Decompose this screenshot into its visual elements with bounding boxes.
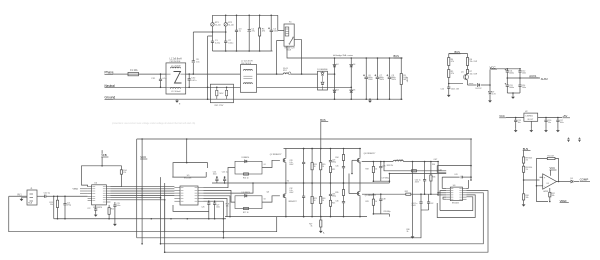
resistor R12 vref bbox=[549, 188, 555, 202]
snubber hb2 lower R29 bbox=[365, 194, 376, 214]
capacitor C9 bulk bbox=[386, 57, 396, 100]
svg-text:100u: 100u bbox=[273, 31, 277, 33]
resistor R6 bbox=[466, 54, 477, 66]
zener diode D7 bbox=[489, 85, 497, 99]
svg-text:R29: R29 bbox=[365, 201, 368, 203]
ground symbol reg3 bbox=[544, 129, 548, 133]
wire out A bbox=[412, 161, 439, 163]
diode D3 bbox=[350, 57, 356, 100]
resistor R13 shunt bbox=[50, 195, 59, 219]
capacitor C22 under U4 bbox=[87, 205, 97, 213]
wire divider tap bbox=[523, 172, 525, 194]
net label Phase bbox=[105, 71, 129, 75]
label u6 area bbox=[432, 164, 442, 171]
connector J1 bbox=[22, 188, 38, 205]
snubber R24 lower bbox=[320, 183, 326, 217]
capacitor C40 out bbox=[415, 162, 426, 196]
svg-text:D8: D8 bbox=[570, 178, 572, 180]
svg-text:C42: C42 bbox=[430, 203, 433, 205]
capacitor C19 stub bbox=[578, 138, 580, 143]
gate network D9 R16 bbox=[204, 156, 280, 188]
wire phase to choke bbox=[139, 73, 167, 75]
wire u6 bus down b bbox=[165, 191, 488, 253]
capacitor C14 bbox=[518, 78, 526, 93]
svg-text:R11 1M: R11 1M bbox=[548, 156, 555, 158]
wire aux mid rail bbox=[507, 77, 541, 79]
inductor L3 bbox=[393, 159, 412, 161]
ground symbol input bbox=[20, 198, 24, 202]
svg-text:D1 GBU806: D1 GBU806 bbox=[317, 69, 327, 71]
svg-text:Phase: Phase bbox=[105, 71, 114, 75]
ground symbol under U4 bbox=[94, 213, 98, 217]
snubber C32 lower bbox=[289, 183, 305, 217]
wire q4 source bbox=[359, 163, 361, 190]
capacitor C21 shunt bbox=[63, 195, 71, 219]
svg-text:10k: 10k bbox=[552, 195, 555, 197]
wire neutral riser bbox=[207, 36, 213, 100]
ground symbol reg4 bbox=[556, 129, 560, 133]
capacitor C27 under U5 bbox=[213, 200, 220, 219]
resistor R2 bleeder bbox=[400, 57, 407, 100]
svg-text:R17 10: R17 10 bbox=[243, 212, 249, 214]
faint note row bbox=[112, 122, 196, 125]
relay K1 bbox=[284, 21, 295, 51]
capacitor C3 bbox=[235, 15, 242, 52]
svg-text:3k: 3k bbox=[407, 231, 409, 233]
gate network D10 R17 bbox=[204, 190, 280, 213]
ground symbol comp bbox=[522, 203, 526, 207]
transistor Q5 nfet bbox=[357, 191, 375, 217]
label +BUS vertical bbox=[407, 76, 409, 82]
capacitor C43 u6 bbox=[442, 174, 472, 188]
wire u4 bus d bbox=[110, 192, 174, 194]
svg-text:RV1 275V: RV1 275V bbox=[215, 105, 224, 107]
wire snub join hb2 bbox=[373, 174, 391, 184]
svg-text:BUS: BUS bbox=[320, 118, 326, 122]
svg-text:1%: 1% bbox=[526, 169, 529, 171]
svg-text:F1 10A: F1 10A bbox=[130, 69, 138, 72]
wire opamp vcc bbox=[550, 166, 557, 176]
svg-text:C22: C22 bbox=[87, 208, 90, 210]
svg-text:C20 1u: C20 1u bbox=[44, 192, 51, 194]
svg-text:R35: R35 bbox=[335, 192, 338, 194]
snubber R20 bbox=[320, 149, 326, 184]
capacitor C10 bbox=[441, 87, 460, 94]
svg-text:47u: 47u bbox=[252, 31, 255, 33]
svg-text:47k: 47k bbox=[451, 61, 454, 63]
svg-text:470p: 470p bbox=[67, 204, 71, 206]
net label VCC aux bbox=[489, 65, 497, 85]
wire hb bottom rail bbox=[225, 216, 367, 218]
svg-text:full-bridge 35A - mains: full-bridge 35A - mains bbox=[333, 54, 353, 57]
diode D2 bbox=[333, 57, 339, 100]
svg-text:Q4 IRFB4227: Q4 IRFB4227 bbox=[364, 153, 376, 155]
svg-text:CM CHOKE: CM CHOKE bbox=[241, 63, 252, 65]
svg-text:10: 10 bbox=[375, 201, 377, 203]
gate driver U5 bbox=[174, 175, 203, 205]
svg-text:1u: 1u bbox=[239, 31, 241, 33]
wire driver pin down bbox=[204, 201, 225, 238]
svg-text:R31: R31 bbox=[432, 176, 435, 178]
net label IN bbox=[9, 194, 27, 196]
wire driver aux pins bbox=[204, 182, 254, 217]
svg-text:RT4: RT4 bbox=[283, 70, 287, 72]
net label VCC reg bbox=[499, 114, 524, 118]
label out net bbox=[434, 159, 439, 161]
capacitor C6 bulk bbox=[363, 57, 373, 100]
resistor R10 bbox=[523, 194, 529, 203]
svg-text:G1: G1 bbox=[264, 164, 266, 166]
svg-text:LM311: LM311 bbox=[543, 191, 548, 193]
capacitor C12 bbox=[518, 68, 526, 78]
svg-text:C26: C26 bbox=[201, 206, 204, 208]
wire hb2 lower node bbox=[360, 193, 406, 196]
svg-text:C46: C46 bbox=[335, 201, 338, 203]
svg-text:10k: 10k bbox=[50, 204, 53, 206]
svg-text:200V: 200V bbox=[380, 79, 385, 81]
capacitor C25 boot bbox=[222, 171, 228, 183]
wire bridge top rail BUS bbox=[318, 54, 403, 58]
svg-text:CM CHOKE: CM CHOKE bbox=[170, 61, 182, 63]
common-mode choke L1 bbox=[166, 58, 186, 94]
svg-text:COMP: COMP bbox=[580, 178, 589, 182]
capacitor CX1 bbox=[151, 73, 166, 88]
capacitor C13 bbox=[505, 78, 515, 93]
wire u6 right loop a bbox=[440, 197, 473, 211]
capacitor C18 stub bbox=[567, 138, 569, 143]
net label Ground bbox=[105, 96, 403, 100]
net label BUS comp bbox=[523, 147, 531, 151]
capacitor C26 under U5 bbox=[201, 200, 210, 219]
resistor R8 bbox=[523, 150, 533, 163]
svg-text:D5: D5 bbox=[353, 90, 355, 92]
svg-text:15k / 1W: 15k / 1W bbox=[470, 74, 478, 76]
svg-text:a: a bbox=[272, 31, 273, 33]
wire capbank bottom rail bbox=[212, 50, 272, 52]
svg-text:100n: 100n bbox=[522, 73, 526, 75]
ground symbol bridge bbox=[368, 98, 372, 102]
wire phase after choke bbox=[186, 73, 241, 75]
diode module D1 bbox=[317, 69, 327, 90]
capacitor C17 bbox=[556, 117, 564, 129]
svg-text:5D-11: 5D-11 bbox=[283, 68, 288, 70]
svg-text:CL-60: CL-60 bbox=[215, 24, 221, 26]
snubber column mid x343 lower bbox=[335, 183, 345, 217]
wire hb top rail bbox=[284, 148, 361, 150]
net label VFB bbox=[101, 150, 108, 166]
svg-text:R16 10: R16 10 bbox=[243, 177, 249, 179]
wire u6 right loop b bbox=[437, 195, 475, 218]
wire input node bbox=[53, 195, 88, 197]
svg-text:C45: C45 bbox=[335, 166, 338, 168]
svg-text:10u: 10u bbox=[518, 122, 521, 124]
wire out join bbox=[437, 162, 439, 195]
svg-text:0.22u: 0.22u bbox=[215, 42, 220, 44]
wire vcc rail right bbox=[490, 69, 520, 70]
wire u4 bus e bbox=[110, 195, 174, 197]
ground symbol earth bbox=[175, 99, 181, 105]
net label +5V bbox=[562, 114, 570, 118]
wire capbank top rail bbox=[212, 14, 277, 16]
zener diode D6 bbox=[469, 83, 490, 90]
regulator U2 7805 bbox=[524, 111, 562, 121]
svg-text:L1.2 6.8mH: L1.2 6.8mH bbox=[171, 91, 181, 93]
net label BUS aux bbox=[449, 50, 461, 54]
svg-text:100n: 100n bbox=[216, 206, 220, 208]
wire to relay coil bbox=[272, 15, 284, 33]
svg-text:IR2110S: IR2110S bbox=[452, 203, 460, 205]
svg-text:3W: 3W bbox=[403, 79, 406, 81]
wire bottom bus 238 bbox=[137, 210, 421, 238]
wire vcc mid rail bbox=[137, 138, 471, 149]
svg-text:D4: D4 bbox=[336, 90, 338, 92]
driver U6 bbox=[446, 185, 466, 205]
svg-text:R32: R32 bbox=[405, 191, 408, 193]
ground symbol bminus bbox=[319, 230, 325, 235]
svg-text:10: 10 bbox=[314, 200, 316, 202]
net label AUX2 bbox=[541, 77, 549, 81]
wire relay contact right bbox=[294, 40, 302, 75]
svg-text:10k: 10k bbox=[226, 206, 229, 208]
svg-text:100n 1kV: 100n 1kV bbox=[451, 89, 460, 91]
ground symbol reg2 bbox=[529, 129, 533, 133]
svg-text:VFB: VFB bbox=[101, 153, 107, 157]
wire vfb loop bbox=[82, 165, 103, 187]
capacitor C16 bbox=[544, 117, 551, 129]
svg-text:C25 1u: C25 1u bbox=[222, 171, 228, 173]
svg-text:10: 10 bbox=[375, 168, 377, 170]
ground symbol aux2 bbox=[488, 99, 492, 103]
wire tap to opamp bbox=[524, 179, 540, 181]
svg-text:C43: C43 bbox=[454, 174, 457, 176]
capacitor C5 bbox=[268, 15, 278, 52]
thermistor RT1 bbox=[211, 15, 222, 33]
capacitor CX2 bbox=[188, 73, 197, 88]
net label Neutral bbox=[105, 84, 167, 88]
svg-text:U3: U3 bbox=[547, 183, 549, 185]
wire driver left drops bbox=[160, 177, 166, 253]
net label VCC mid bbox=[140, 155, 147, 159]
svg-text:0.22u: 0.22u bbox=[228, 42, 233, 44]
svg-text:200V: 200V bbox=[392, 79, 397, 81]
snubber C33 lower bbox=[329, 183, 336, 217]
wire u4 bus c bbox=[110, 190, 174, 192]
svg-text:27k: 27k bbox=[123, 172, 126, 174]
transistor Q2 nfet bbox=[270, 149, 287, 184]
wire input feedback left bbox=[9, 196, 277, 231]
wire u4 bus f bbox=[110, 197, 161, 199]
label hb2 T bbox=[0, 0, 1, 1]
svg-text:LM7805: LM7805 bbox=[526, 115, 534, 117]
svg-text:C44: C44 bbox=[439, 169, 442, 171]
svg-text:zener: zener bbox=[469, 83, 474, 85]
wire driver top loop bbox=[172, 139, 207, 177]
svg-text:Q2 IRFB4227: Q2 IRFB4227 bbox=[270, 154, 282, 156]
wire relay contact left bbox=[276, 41, 284, 75]
svg-text:1%: 1% bbox=[526, 160, 529, 162]
ground symbol reg1 bbox=[514, 129, 518, 133]
capacitor C4 bbox=[248, 15, 255, 52]
svg-text:R21: R21 bbox=[332, 169, 335, 171]
wire u6 bus down a bbox=[161, 193, 484, 244]
svg-text:CL-60: CL-60 bbox=[228, 24, 234, 26]
wire emitter to vcc bbox=[468, 81, 477, 86]
svg-text:R33 22k: R33 22k bbox=[387, 165, 393, 167]
label hb1 T bbox=[287, 180, 290, 182]
snubber hb2 R28 bbox=[365, 162, 376, 182]
wire u6 left pins bbox=[437, 188, 446, 210]
svg-text:AUX1: AUX1 bbox=[529, 74, 537, 78]
svg-text:VCC: VCC bbox=[499, 114, 505, 118]
capacitor C11 bbox=[505, 68, 515, 78]
common-mode choke L2 bbox=[240, 61, 256, 93]
ground symbol c23 bbox=[113, 223, 117, 227]
wire vcc bottom join bbox=[141, 243, 143, 245]
svg-text:protections: over-current ove: protections: over-current over-voltage u… bbox=[112, 122, 196, 125]
svg-text:D2: D2 bbox=[336, 64, 338, 66]
wire phase into bridge bbox=[328, 73, 335, 75]
svg-text:Q5 IRFB4227: Q5 IRFB4227 bbox=[365, 195, 376, 197]
wire bottom segment 227 bbox=[164, 200, 166, 232]
wire aux top rail bbox=[449, 53, 468, 55]
wire rail left drop bbox=[136, 139, 138, 238]
resistor R9 bbox=[523, 163, 533, 172]
capacitor C15 bbox=[514, 117, 521, 129]
net label AUX1 bbox=[529, 74, 538, 78]
resistor R5 bbox=[448, 66, 454, 78]
capacitor C23 under U4 bbox=[113, 202, 120, 223]
gate wires hb2 bbox=[349, 160, 446, 193]
label under U5 bbox=[226, 203, 229, 207]
ground symbol aux3 bbox=[511, 95, 515, 99]
label full-bridge bbox=[333, 54, 353, 57]
svg-text:10k: 10k bbox=[526, 197, 529, 199]
svg-text:BUS: BUS bbox=[394, 54, 400, 58]
svg-text:+BUS: +BUS bbox=[407, 76, 409, 82]
svg-text:IRFB4227: IRFB4227 bbox=[289, 201, 297, 203]
wire outA drop bbox=[407, 162, 413, 234]
wire input shunt rail bbox=[54, 196, 226, 219]
svg-text:100n: 100n bbox=[213, 174, 217, 176]
varistor block RV1 bbox=[210, 84, 233, 107]
resistor R11 feedback bbox=[536, 156, 560, 187]
wire u4 bus b bbox=[110, 188, 174, 190]
svg-text:D10 BAT54: D10 BAT54 bbox=[242, 191, 251, 194]
capacitor C7 bulk bbox=[374, 57, 384, 100]
svg-text:VREF: VREF bbox=[560, 199, 568, 203]
resistor R31 out bbox=[430, 161, 436, 195]
svg-text:VCC: VCC bbox=[550, 166, 556, 170]
capacitor C20 series bbox=[37, 192, 54, 197]
svg-text:47k: 47k bbox=[451, 73, 454, 75]
snubber hb2 lower C38 bbox=[379, 194, 385, 214]
svg-text:Q1: Q1 bbox=[461, 72, 464, 74]
wire reg gnd pin bbox=[530, 121, 532, 128]
capacitor C24 boot bbox=[213, 171, 219, 183]
resistor R27 bminus bbox=[309, 149, 322, 230]
svg-text:10: 10 bbox=[314, 166, 316, 168]
transistor Q4 nfet bbox=[357, 148, 375, 164]
svg-text:10n: 10n bbox=[196, 61, 199, 63]
svg-text:100n: 100n bbox=[560, 122, 564, 124]
svg-text:C36: C36 bbox=[382, 166, 385, 168]
net label VREF bbox=[548, 199, 569, 203]
svg-text:R15: R15 bbox=[111, 209, 114, 211]
svg-text:0.47u: 0.47u bbox=[191, 80, 196, 82]
transistor Q1 bbox=[449, 72, 469, 84]
svg-text:100n: 100n bbox=[117, 205, 121, 207]
wire u4 bus a bbox=[110, 186, 174, 188]
svg-text:C10: C10 bbox=[441, 89, 445, 91]
fuse F1 bbox=[128, 69, 139, 76]
resistor R4 bbox=[448, 54, 454, 66]
wire stub u6 top bbox=[437, 173, 446, 211]
capacitor C1 bbox=[211, 32, 220, 51]
svg-text:D6 12V: D6 12V bbox=[476, 88, 483, 90]
wire relay coil return bbox=[287, 46, 318, 58]
thermistor RT2 bbox=[212, 15, 234, 33]
svg-text:G2: G2 bbox=[264, 199, 266, 201]
snubber C28 bbox=[289, 148, 305, 184]
svg-text:15k / 1W: 15k / 1W bbox=[470, 61, 478, 63]
net label COMP bbox=[580, 178, 590, 182]
svg-text:IR2110S: IR2110S bbox=[184, 178, 192, 180]
svg-text:VSSA: VSSA bbox=[73, 188, 79, 191]
wire under U5 loop bbox=[173, 205, 209, 211]
svg-text:R25: R25 bbox=[332, 203, 335, 205]
wire aux bottom bbox=[507, 92, 520, 95]
svg-text:680p: 680p bbox=[332, 162, 336, 164]
net label BUS mid bbox=[320, 118, 328, 149]
wire u6 top loop bbox=[437, 138, 472, 180]
transistor Q3 nfet bbox=[267, 183, 297, 217]
svg-text:C39 680p: C39 680p bbox=[383, 211, 390, 213]
svg-text:BUS: BUS bbox=[523, 147, 529, 151]
svg-text:AUX2: AUX2 bbox=[541, 77, 549, 81]
svg-text:680p: 680p bbox=[332, 195, 336, 197]
resistor R14 vfb bbox=[102, 166, 126, 187]
ground symbol aux1 bbox=[447, 94, 451, 98]
capacitor C42 out lower bbox=[421, 194, 433, 210]
capacitor C41 out lower bbox=[412, 194, 423, 210]
svg-text:10: 10 bbox=[322, 200, 324, 202]
capacitor C2 bbox=[224, 32, 233, 52]
wire R5 to C10 bbox=[448, 78, 450, 88]
wire u4 bus g bbox=[110, 199, 165, 201]
svg-text:10u: 10u bbox=[548, 122, 551, 124]
svg-text:1000u: 1000u bbox=[509, 73, 514, 75]
resistor R1 bleeder bbox=[259, 15, 267, 52]
ground symbol outA bbox=[411, 228, 415, 239]
snubber R19 bbox=[311, 148, 317, 184]
svg-text:100n: 100n bbox=[522, 87, 526, 89]
svg-text:10: 10 bbox=[322, 166, 324, 168]
snubber hb2 C36 bbox=[379, 162, 385, 182]
controller U4 bbox=[88, 182, 111, 209]
svg-text:R28: R28 bbox=[365, 168, 368, 170]
snubber column mid x343 bbox=[335, 149, 345, 184]
inductor L4 lower bbox=[405, 191, 438, 196]
diode D8 comp out bbox=[559, 178, 580, 183]
svg-text:C37 680p: C37 680p bbox=[382, 178, 389, 180]
svg-text:L1.1 6.8mH: L1.1 6.8mH bbox=[171, 65, 181, 67]
wire opamp minus input bbox=[537, 186, 549, 202]
wire u6 pin up bbox=[467, 179, 472, 188]
wire vcc drop bbox=[141, 139, 143, 244]
svg-text:D9 BAT54: D9 BAT54 bbox=[242, 156, 250, 159]
svg-text:VCC: VCC bbox=[140, 155, 146, 159]
svg-text:1000u: 1000u bbox=[509, 87, 514, 89]
